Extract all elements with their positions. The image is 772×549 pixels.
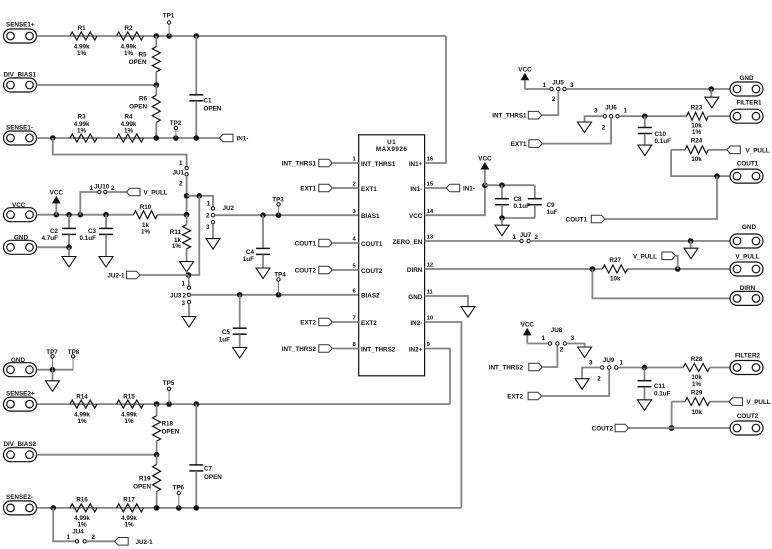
wire COUT1 tag to COUT1 connector xyxy=(605,176,717,219)
svg-text:4.7uF: 4.7uF xyxy=(42,235,59,242)
svg-text:JU10: JU10 xyxy=(94,183,110,190)
svg-text:2: 2 xyxy=(602,125,606,132)
connector SENSE2+ xyxy=(4,397,37,411)
junction SENSE1- branch xyxy=(50,135,56,141)
capacitor C8 xyxy=(501,185,503,198)
svg-text:13: 13 xyxy=(427,235,434,241)
op-amp U1 MAX9926 body xyxy=(359,135,425,376)
svg-text:DIV_BIAS2: DIV_BIAS2 xyxy=(4,441,37,448)
svg-text:1%: 1% xyxy=(77,128,87,135)
svg-text:INT_THRS1: INT_THRS1 xyxy=(282,161,317,168)
svg-text:FILTER2: FILTER2 xyxy=(735,353,761,360)
wire VCC to JU5 pin 1 xyxy=(525,88,550,90)
svg-text:JU3: JU3 xyxy=(170,292,182,299)
tag IN1- (pin 15) xyxy=(446,184,460,192)
svg-text:IN2+: IN2+ xyxy=(409,346,423,353)
svg-text:1: 1 xyxy=(66,534,70,541)
svg-text:V_PULL: V_PULL xyxy=(633,253,657,260)
svg-text:R29: R29 xyxy=(691,389,703,396)
junction TP5 xyxy=(166,401,172,407)
ground at JU9 pin 3 xyxy=(575,379,589,390)
power VCC arrow 3 xyxy=(524,79,526,89)
resistor R16 xyxy=(70,504,97,512)
junction TP6 xyxy=(176,505,182,511)
svg-text:2: 2 xyxy=(597,376,601,383)
wire BIAS1 row xyxy=(215,214,359,216)
connector GND (right 2) xyxy=(730,234,763,248)
svg-text:JU4: JU4 xyxy=(72,529,84,536)
svg-text:BIAS1: BIAS1 xyxy=(361,213,380,220)
svg-text:2: 2 xyxy=(552,96,556,103)
svg-text:1%: 1% xyxy=(77,522,87,529)
wire GND to ground xyxy=(52,370,54,381)
wire tag to pin 5 xyxy=(332,269,358,271)
svg-text:1uF: 1uF xyxy=(547,209,558,216)
svg-text:IN1+: IN1+ xyxy=(409,161,423,168)
svg-text:V_PULL: V_PULL xyxy=(747,399,771,406)
tag V_PULL (R29) xyxy=(729,398,743,406)
power VCC arrow 1 xyxy=(55,202,57,214)
tag IN1- (left) xyxy=(220,134,234,142)
junction C2 bottom xyxy=(66,245,72,251)
wire JU9 pin 3 to ground xyxy=(582,368,600,379)
svg-text:1%: 1% xyxy=(141,229,151,236)
resistor R4 xyxy=(117,134,144,142)
svg-text:C8: C8 xyxy=(514,196,523,203)
svg-text:INT_THRS2: INT_THRS2 xyxy=(489,365,524,372)
svg-text:3: 3 xyxy=(181,300,185,307)
svg-text:C11: C11 xyxy=(654,383,666,390)
wire R23 to FILTER1 xyxy=(708,115,730,117)
svg-text:1: 1 xyxy=(181,281,185,288)
svg-text:IN1-: IN1- xyxy=(237,136,249,143)
wire R24 left to COUT1 connector xyxy=(671,150,730,176)
junction line B top xyxy=(197,193,203,199)
svg-text:TP5: TP5 xyxy=(163,380,175,387)
svg-text:2: 2 xyxy=(182,292,186,299)
svg-text:INT_THRS2: INT_THRS2 xyxy=(361,346,396,353)
resistor R17 xyxy=(117,504,144,512)
svg-text:R23: R23 xyxy=(691,104,703,111)
svg-text:C4: C4 xyxy=(246,249,255,256)
wire GND pin 11 xyxy=(425,296,468,307)
jumper JU10 xyxy=(80,192,97,215)
connector GND (bottom left) xyxy=(4,363,37,377)
junction TP1 xyxy=(166,33,172,39)
svg-text:8: 8 xyxy=(353,342,357,348)
resistor R24 xyxy=(671,149,685,151)
svg-text:1: 1 xyxy=(179,160,183,167)
svg-text:OPEN: OPEN xyxy=(133,483,151,490)
wire tag to pin 7 xyxy=(332,321,358,323)
capacitor C2 xyxy=(68,215,70,229)
svg-text:C9: C9 xyxy=(547,202,556,209)
svg-text:5: 5 xyxy=(353,264,357,270)
svg-text:1uF: 1uF xyxy=(243,256,254,263)
resistor R10 xyxy=(134,211,158,219)
wire pin 15 stub xyxy=(425,187,447,189)
junction C5 top xyxy=(237,292,243,298)
svg-text:VCC: VCC xyxy=(478,156,492,163)
wire IN2+ pin 9 to SENSE2+ row xyxy=(425,349,450,405)
svg-text:COUT2: COUT2 xyxy=(737,413,759,420)
svg-text:C1: C1 xyxy=(204,98,213,105)
tag V_PULL (R24) xyxy=(727,146,741,154)
svg-text:R24: R24 xyxy=(691,138,703,145)
svg-text:14: 14 xyxy=(427,209,434,215)
tag JU2-1 (JU4) xyxy=(115,538,129,546)
svg-text:7: 7 xyxy=(353,316,357,322)
connector GND (top right) xyxy=(730,82,763,96)
capacitor C7 (OPEN) xyxy=(195,404,197,465)
svg-text:TP2: TP2 xyxy=(170,120,182,127)
ground under JU2 xyxy=(206,239,220,250)
svg-text:C5: C5 xyxy=(222,329,231,336)
svg-text:1uF: 1uF xyxy=(219,337,230,344)
svg-text:SENSE2+: SENSE2+ xyxy=(6,390,35,397)
svg-text:R19: R19 xyxy=(139,475,151,482)
ground under GND row 1 xyxy=(705,97,719,108)
svg-text:COUT1: COUT1 xyxy=(361,241,383,248)
svg-text:R10: R10 xyxy=(140,204,152,211)
svg-text:EXT1: EXT1 xyxy=(300,186,316,193)
connector V_PULL xyxy=(730,262,763,276)
ground under C11 xyxy=(638,400,652,411)
resistor R27 xyxy=(602,265,627,273)
svg-text:DIRN: DIRN xyxy=(407,267,423,274)
junction DIRN branch xyxy=(590,266,596,272)
junction C4 top xyxy=(260,212,266,218)
connector SENSE2- xyxy=(4,501,37,515)
svg-text:TP1: TP1 xyxy=(163,13,175,20)
connector DIV_BIAS2 xyxy=(4,448,37,462)
svg-text:R16: R16 xyxy=(76,497,88,504)
svg-text:GND: GND xyxy=(408,294,422,301)
svg-text:EXT2: EXT2 xyxy=(361,320,377,327)
svg-text:GND: GND xyxy=(742,224,756,231)
svg-text:12: 12 xyxy=(427,263,434,269)
svg-text:JU7: JU7 xyxy=(520,232,532,239)
ground under C4 xyxy=(256,268,270,279)
svg-text:VCC: VCC xyxy=(409,213,423,220)
tag V_PULL (R27) xyxy=(662,252,676,260)
wire IN2- pin 10 to SENSE2- row xyxy=(425,322,462,508)
svg-text:10k: 10k xyxy=(691,409,702,416)
svg-text:3: 3 xyxy=(589,360,593,367)
junction R18 top xyxy=(154,401,160,407)
wire junction to JU3 pin 1 xyxy=(188,275,191,286)
resistor R14 xyxy=(70,400,97,408)
wire GND row with TP7 TP8 xyxy=(37,369,74,371)
junction VCC rail xyxy=(482,182,488,188)
svg-text:MAX9926: MAX9926 xyxy=(376,146,408,153)
resistor R5 (OPEN) xyxy=(155,36,157,47)
svg-text:1%: 1% xyxy=(77,418,87,425)
capacitor C9 xyxy=(534,185,536,198)
svg-text:EXT1: EXT1 xyxy=(361,186,377,193)
ground under R11 xyxy=(180,262,194,273)
ground at JU8 pin 3 xyxy=(578,347,592,358)
svg-text:1%: 1% xyxy=(692,381,702,388)
connector SENSE1+ xyxy=(4,29,37,43)
junction C3 top xyxy=(103,212,109,218)
power VCC arrow 4 xyxy=(526,334,528,343)
wire V_PULL tag stub xyxy=(675,256,677,269)
svg-text:JU2: JU2 xyxy=(223,205,235,212)
svg-text:OPEN: OPEN xyxy=(129,104,147,111)
junction C11 top xyxy=(642,365,648,371)
svg-text:R6: R6 xyxy=(139,96,148,103)
svg-text:4: 4 xyxy=(353,237,357,243)
connector SENSE1- xyxy=(4,131,37,145)
junction R6 bottom xyxy=(154,135,160,141)
svg-text:INT_THRS1: INT_THRS1 xyxy=(361,161,396,168)
junction C8 top xyxy=(499,182,505,188)
wire SENSE1- to JU1 pin 1 xyxy=(53,138,187,166)
wire VCC row xyxy=(37,214,134,216)
wire to JU2 pin 1 xyxy=(187,196,213,207)
svg-text:JU8: JU8 xyxy=(551,327,563,334)
junction VCC arrow xyxy=(54,212,60,218)
junction TP7 xyxy=(50,367,56,373)
svg-text:V_PULL: V_PULL xyxy=(735,254,759,261)
svg-text:R14: R14 xyxy=(76,393,88,400)
svg-text:3: 3 xyxy=(570,82,574,89)
svg-text:R4: R4 xyxy=(124,113,133,120)
svg-text:1%: 1% xyxy=(124,522,134,529)
svg-text:0.1uF: 0.1uF xyxy=(514,203,531,210)
wire line B down to GND node xyxy=(189,196,200,275)
wire SENSE1+ row to IN1+ vertical xyxy=(37,35,447,37)
connector DIV_BIAS1 xyxy=(4,78,37,92)
svg-text:1: 1 xyxy=(542,82,546,89)
svg-text:1%: 1% xyxy=(77,50,87,57)
capacitor C3 xyxy=(105,215,107,229)
svg-text:EXT2: EXT2 xyxy=(507,394,523,401)
svg-text:C7: C7 xyxy=(204,465,213,472)
connector FILTER1 xyxy=(730,109,763,123)
capacitor C10 xyxy=(644,116,646,127)
svg-text:0.1uF: 0.1uF xyxy=(654,390,671,397)
svg-text:1: 1 xyxy=(624,107,628,114)
capacitor C11 xyxy=(644,368,646,381)
wire R28 to FILTER2 xyxy=(710,367,730,369)
wire COUT2 tag to COUT2 connector xyxy=(629,427,730,429)
wire tag to pin 2 xyxy=(332,187,358,189)
junction C1 bottom xyxy=(194,135,200,141)
svg-text:COUT2: COUT2 xyxy=(361,268,383,275)
svg-text:INT_THRS1: INT_THRS1 xyxy=(492,113,527,120)
ground at pin 11 xyxy=(461,307,475,318)
wire VCC to JU8 pin 1 xyxy=(527,343,548,345)
svg-text:VCC: VCC xyxy=(50,189,64,196)
svg-text:JU2-1: JU2-1 xyxy=(107,273,125,280)
ground under C5 xyxy=(233,348,247,359)
wire JU2 pin 3 to ground xyxy=(212,224,214,239)
wire JU1 pin 2 down xyxy=(186,176,188,215)
wire R29 to V_PULL tag xyxy=(710,401,729,403)
svg-text:SENSE1+: SENSE1+ xyxy=(6,22,35,29)
svg-text:3: 3 xyxy=(206,224,210,231)
junction GND node JU3 xyxy=(186,272,192,278)
wire JU5 pin 3 to GND connector xyxy=(566,88,730,90)
svg-text:VCC: VCC xyxy=(521,321,535,328)
svg-text:EXT1: EXT1 xyxy=(511,141,527,148)
resistor R1 xyxy=(70,32,97,40)
svg-text:JU5: JU5 xyxy=(552,80,564,87)
svg-text:9: 9 xyxy=(427,342,431,348)
junction SENSE2- branch xyxy=(50,505,56,511)
wire BIAS2 row xyxy=(191,294,359,296)
svg-text:1: 1 xyxy=(620,360,624,367)
svg-text:1%: 1% xyxy=(124,418,134,425)
junction C2 top xyxy=(66,212,72,218)
svg-text:10k: 10k xyxy=(610,276,621,283)
svg-text:1%: 1% xyxy=(124,50,134,57)
wire tag to pin 4 xyxy=(332,242,358,244)
svg-text:R1: R1 xyxy=(78,25,87,32)
resistor R15 xyxy=(117,400,144,408)
connector COUT2 xyxy=(730,421,763,435)
connector FILTER2 xyxy=(730,361,763,375)
resistor R28 xyxy=(683,364,710,372)
junction JU10 branch xyxy=(78,212,84,218)
svg-text:JU6: JU6 xyxy=(605,105,617,112)
resistor R2 xyxy=(117,32,144,40)
svg-text:1%: 1% xyxy=(692,129,702,136)
wire C8 C9 bottom rail xyxy=(502,217,535,219)
wire INT_THRS2 tag to JU8 pin 2 xyxy=(542,345,557,367)
resistor R18 (OPEN) xyxy=(156,404,158,416)
svg-text:JU2-1: JU2-1 xyxy=(136,539,154,546)
svg-text:JU9: JU9 xyxy=(603,357,615,364)
svg-text:COUT1: COUT1 xyxy=(737,161,759,168)
capacitor C4 xyxy=(262,215,264,248)
svg-text:10: 10 xyxy=(427,316,434,322)
wire VCC pin 14 xyxy=(425,185,485,215)
wire JU10 pin 2 to V_PULL tag xyxy=(107,191,127,193)
svg-text:1%: 1% xyxy=(124,128,134,135)
svg-text:OPEN: OPEN xyxy=(204,106,222,113)
svg-text:R15: R15 xyxy=(123,393,135,400)
resistor R6 (OPEN) xyxy=(155,85,157,95)
capacitor C5 xyxy=(239,295,241,328)
svg-text:VCC: VCC xyxy=(518,66,532,73)
junction TP3 xyxy=(276,212,282,218)
wire VCC rail to C8 C9 xyxy=(485,184,535,186)
svg-text:TP4: TP4 xyxy=(274,271,286,278)
wire SENSE1- row xyxy=(37,137,220,139)
capacitor C1 (OPEN) xyxy=(195,36,197,95)
svg-text:2: 2 xyxy=(560,347,564,354)
wire DIRN pin 12 row xyxy=(425,268,603,270)
resistor R3 xyxy=(70,134,97,142)
svg-text:2: 2 xyxy=(206,213,210,220)
svg-text:1%: 1% xyxy=(172,243,182,250)
wire tag to pin 1 xyxy=(332,162,358,164)
svg-text:16: 16 xyxy=(427,157,434,163)
ground under C10 xyxy=(638,145,652,156)
wire to ground xyxy=(710,89,712,97)
wire R24 to V_PULL tag xyxy=(708,149,727,151)
ground under GND row 2 xyxy=(684,248,698,259)
svg-text:OPEN: OPEN xyxy=(129,59,147,66)
wire JU3 pin 3 to ground xyxy=(188,304,190,317)
connector DIRN xyxy=(730,291,763,305)
wire DIV_BIAS1 row xyxy=(37,84,157,86)
wire JU2-1 tag to junction xyxy=(140,274,189,276)
wire R10 to junction xyxy=(158,214,187,216)
connector VCC xyxy=(4,208,37,222)
svg-text:3: 3 xyxy=(571,335,575,342)
svg-text:R2: R2 xyxy=(124,25,133,32)
ground under C8 C9 xyxy=(495,225,509,236)
wire EXT1 tag to JU6 pin 2 xyxy=(542,118,611,144)
junction TP4 xyxy=(276,292,282,298)
svg-text:BIAS2: BIAS2 xyxy=(361,293,380,300)
wire IN1+ pin 16 to top row xyxy=(425,36,446,163)
resistor R23 xyxy=(687,112,709,120)
svg-text:SENSE2-: SENSE2- xyxy=(6,494,33,501)
wire to ground xyxy=(501,218,503,225)
svg-text:3: 3 xyxy=(353,209,357,215)
junction GND right 1 xyxy=(709,86,715,92)
svg-text:10k: 10k xyxy=(691,156,702,163)
junction C8 bottom xyxy=(499,215,505,221)
wire R27 to V_PULL connector xyxy=(628,268,731,270)
svg-text:INT_THRS2: INT_THRS2 xyxy=(282,346,317,353)
svg-text:0.1uF: 0.1uF xyxy=(80,235,97,242)
connector COUT1 xyxy=(730,169,763,183)
svg-text:IN1-: IN1- xyxy=(410,186,422,193)
wire EXT2 tag to JU9 pin 2 xyxy=(542,369,610,396)
svg-text:OPEN: OPEN xyxy=(162,428,180,435)
junction C7 bottom xyxy=(194,505,200,511)
svg-text:2: 2 xyxy=(179,181,183,188)
junction TP2 xyxy=(173,135,179,141)
svg-text:R5: R5 xyxy=(138,52,147,59)
svg-text:OPEN: OPEN xyxy=(204,474,222,481)
wire JU6 pin 1 to R23 xyxy=(619,115,686,117)
resistor R11 xyxy=(186,215,188,225)
svg-text:FILTER1: FILTER1 xyxy=(736,100,762,107)
junction C1 top xyxy=(194,33,200,39)
svg-text:COUT2: COUT2 xyxy=(592,426,614,433)
svg-text:COUT1: COUT1 xyxy=(295,241,317,248)
junction COUT1 xyxy=(714,173,720,179)
svg-text:GND: GND xyxy=(740,75,754,82)
svg-text:6: 6 xyxy=(353,289,357,295)
svg-text:C2: C2 xyxy=(50,228,59,235)
junction R10/R11 xyxy=(184,212,190,218)
svg-text:0.1uF: 0.1uF xyxy=(655,138,672,145)
svg-text:JU1: JU1 xyxy=(172,170,184,177)
wire ZERO_EN pin 13 to JU7 xyxy=(425,240,520,242)
svg-text:2: 2 xyxy=(353,182,357,188)
wire to ground xyxy=(690,241,692,248)
wire branch to DIRN connector xyxy=(592,269,730,298)
svg-text:R17: R17 xyxy=(123,497,135,504)
svg-text:TP6: TP6 xyxy=(173,485,185,492)
svg-text:1: 1 xyxy=(353,157,357,163)
junction C10 top xyxy=(642,113,648,119)
resistor R19 (OPEN) xyxy=(156,455,158,465)
power VCC arrow 2 xyxy=(484,169,486,186)
junction R5 top xyxy=(154,33,160,39)
ground under C2 xyxy=(62,257,76,268)
wire JU6 pin 3 to ground xyxy=(585,116,604,122)
wire tag to pin 8 xyxy=(332,348,358,350)
